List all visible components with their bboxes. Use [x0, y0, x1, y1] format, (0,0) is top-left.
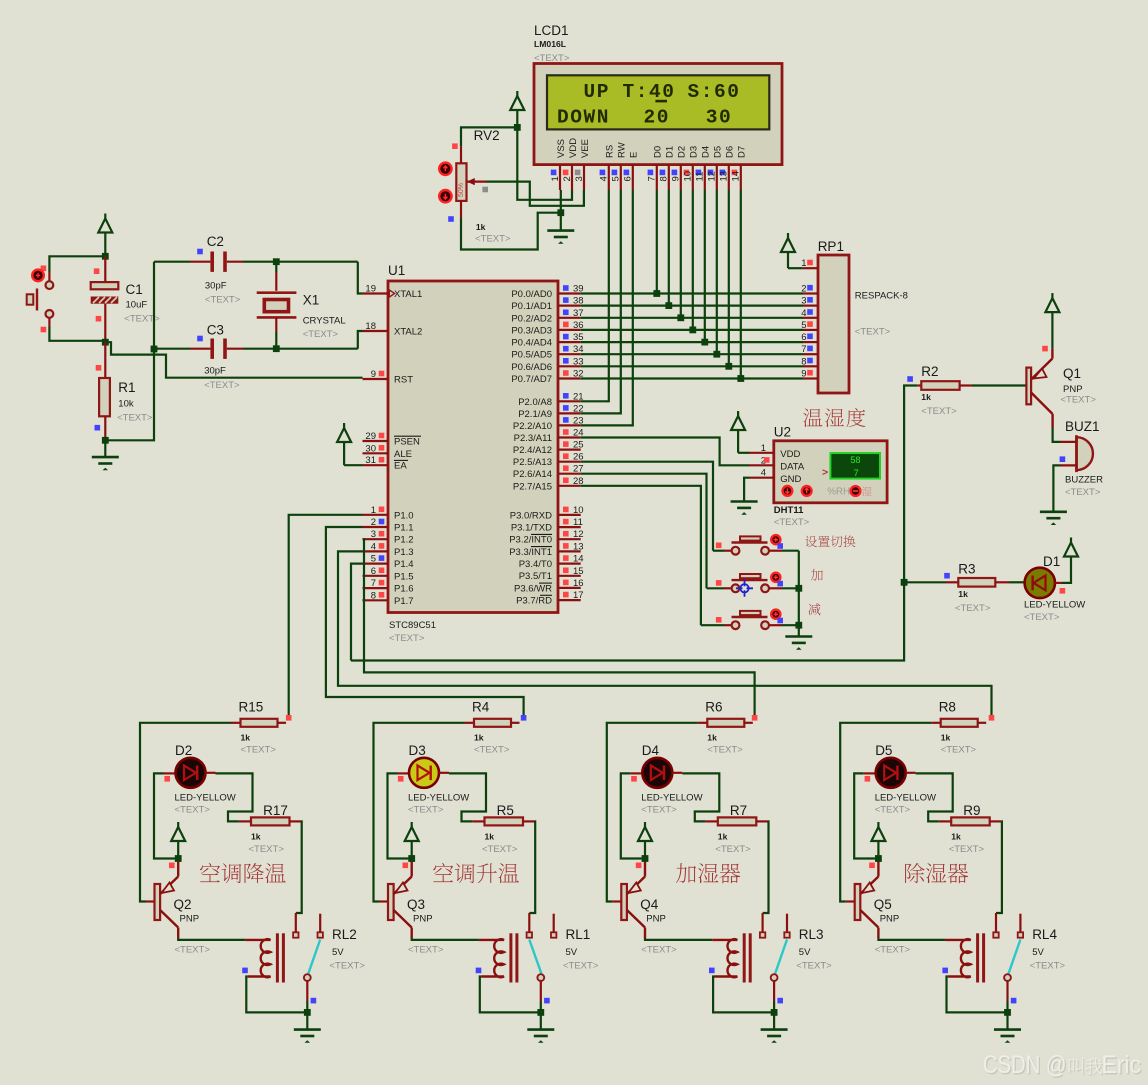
svg-text:LM016L: LM016L [534, 39, 566, 49]
svg-text:%RH: %RH [827, 486, 850, 497]
resistor R1 bottom stub [104, 416, 106, 440]
power flag VCC for EA [343, 423, 345, 428]
wire VCC down to LCD VDD [517, 127, 572, 199]
junction emitter Q3 [408, 855, 415, 862]
junction VSS node [557, 209, 564, 216]
svg-text:D1: D1 [1043, 554, 1060, 569]
relay RL4 contact pins [995, 913, 997, 932]
RP1 pin 1 stub [803, 267, 818, 269]
svg-text:1k: 1k [241, 733, 251, 743]
svg-text:CSDN @: CSDN @ [983, 1051, 1067, 1079]
wire D1 to VCC [1055, 582, 1062, 584]
wire Q4 collector to relay coil [645, 938, 712, 940]
svg-text:XTAL1: XTAL1 [394, 289, 422, 300]
LCD LCD1 LM016L body [534, 64, 782, 165]
svg-text:1k: 1k [958, 589, 968, 599]
capacitor C1 top stub [104, 256, 106, 282]
resistor R17 1k [239, 820, 251, 822]
svg-text:P2.0/A8: P2.0/A8 [518, 397, 552, 408]
svg-text:58: 58 [850, 455, 860, 465]
svg-text:LED-YELLOW: LED-YELLOW [408, 793, 469, 804]
junction relay RL1 ground [537, 1009, 544, 1016]
wire P1.3 to R8 [338, 551, 992, 715]
resistor R9 1k [939, 820, 951, 822]
relay RL3 coil [712, 939, 737, 977]
svg-text:DOWN: DOWN [557, 107, 610, 129]
junction emitter Q5 [875, 855, 882, 862]
junction relay RL3 ground [771, 1009, 778, 1016]
svg-text:T:40: T:40 [623, 81, 676, 103]
svg-text:P3.5/T1: P3.5/T1 [519, 571, 552, 582]
svg-text:15: 15 [573, 566, 584, 577]
ground for LCD VSS [547, 229, 574, 232]
svg-text:<TEXT>: <TEXT> [1061, 395, 1097, 406]
resistor R4 1k [465, 722, 475, 724]
svg-text:R4: R4 [472, 700, 490, 715]
svg-text:<TEXT>: <TEXT> [1024, 612, 1060, 623]
svg-text:P3.2/INT0: P3.2/INT0 [509, 535, 552, 546]
svg-text:P1.1: P1.1 [394, 523, 414, 534]
svg-text:<TEXT>: <TEXT> [474, 745, 510, 756]
svg-text:30: 30 [706, 107, 733, 129]
junction ground node [102, 437, 109, 444]
svg-text:3: 3 [801, 296, 806, 307]
junction D7/P0.7 [737, 375, 744, 382]
svg-text:D2: D2 [677, 146, 688, 158]
relay RL1 coil [479, 939, 504, 977]
wire P1.2/P1.7 to R6 [363, 539, 755, 715]
svg-text:PNP: PNP [413, 914, 433, 925]
svg-text:LED-YELLOW: LED-YELLOW [875, 793, 936, 804]
wire RST node to RST pin [105, 342, 362, 378]
junction RST node [102, 339, 109, 346]
svg-text:11: 11 [695, 172, 706, 182]
wire P0.2 row [581, 317, 803, 319]
wire R15 to Q2 base [140, 723, 231, 902]
svg-text:11: 11 [573, 517, 583, 528]
svg-text:STC89C51: STC89C51 [389, 620, 436, 631]
U2 actuator buttons [783, 486, 793, 496]
svg-text:2: 2 [562, 176, 573, 181]
resistor R3 1k [904, 581, 946, 583]
label jian (decrease) red [808, 603, 820, 615]
transistor Q2 PNP [155, 884, 161, 920]
svg-text:R1: R1 [118, 380, 135, 395]
resistor R5 1k [472, 820, 484, 822]
resistor R1 top stub [104, 342, 106, 378]
wire emitter node to D3 anode [388, 773, 412, 858]
svg-text:25: 25 [573, 440, 584, 451]
wire P0.7 row [581, 377, 803, 379]
junction D6/P0.6 [725, 363, 732, 370]
crystal X1 top wire [275, 262, 277, 272]
wire emitter node to D4 anode [621, 773, 645, 858]
svg-text:1k: 1k [485, 832, 495, 842]
wire D4 cathode to R7 [672, 772, 682, 774]
transistor Q5 PNP [855, 884, 861, 920]
microcontroller U1 STC89C51 body [388, 281, 558, 613]
svg-text:RESPACK-8: RESPACK-8 [855, 290, 908, 301]
relay RL2 core [276, 933, 279, 982]
svg-text:1k: 1k [707, 733, 717, 743]
svg-text:LED-YELLOW: LED-YELLOW [1024, 600, 1085, 611]
wire RS to P2.0 [581, 190, 609, 401]
junction relay RL2 ground [304, 1009, 311, 1016]
svg-text:XTAL2: XTAL2 [394, 327, 422, 338]
wire P2.7 to button 3 [581, 486, 701, 625]
svg-text:P3.0/RXD: P3.0/RXD [510, 510, 552, 521]
relay RL2 blade [308, 940, 320, 975]
watermark CSDN [983, 1051, 1143, 1081]
buzzer BUZ1 [1077, 437, 1093, 470]
power flag VCC reset [104, 214, 106, 219]
label RL3 chinese red [676, 863, 696, 883]
svg-text:P2.7/A15: P2.7/A15 [513, 481, 552, 492]
push button [707, 587, 725, 589]
svg-text:Q3: Q3 [407, 897, 425, 912]
svg-text:<TEXT>: <TEXT> [249, 844, 285, 855]
power flag VCC for D5 [877, 822, 879, 827]
wire R9 to relay contact [990, 820, 1002, 822]
junction D0/P0.0 [653, 290, 660, 297]
svg-text:9: 9 [371, 369, 376, 380]
svg-text:1k: 1k [921, 392, 931, 402]
potentiometer RV2 body [456, 163, 466, 201]
label RL4 chinese red [905, 863, 924, 883]
svg-text:VDD: VDD [780, 449, 800, 460]
RP1 pins 2-9 stubs [803, 292, 818, 294]
relay RL1 blade [529, 940, 541, 975]
capacitor C2 30pF [210, 252, 214, 272]
svg-text:DHT11: DHT11 [774, 505, 804, 516]
wire P0.4 row [581, 341, 803, 343]
svg-text:12: 12 [707, 171, 718, 182]
relay RL3 blade [775, 940, 787, 975]
svg-text:PSEN: PSEN [394, 437, 420, 448]
crystal X1 bottom wire [275, 317, 277, 332]
wire D6 vertical from LCD pin 13 [728, 190, 730, 366]
relay RL3 contact pins [761, 913, 763, 932]
svg-text:P1.5: P1.5 [394, 571, 414, 582]
relay RL2 pole to ground [306, 981, 308, 1001]
label wen-shi-du (temperature humidity) red [803, 409, 822, 427]
junction VCC node [514, 124, 521, 131]
svg-text:<TEXT>: <TEXT> [875, 805, 911, 816]
relay RL2 coil [245, 939, 270, 977]
transistor Q4 PNP [621, 884, 627, 920]
svg-text:<TEXT>: <TEXT> [408, 805, 444, 816]
wire C3 to XTAL2 [227, 348, 243, 350]
svg-text:C1: C1 [126, 282, 143, 297]
wire D4 vertical from LCD pin 11 [704, 190, 706, 342]
resistor R7 1k [705, 820, 717, 822]
svg-text:P1.2: P1.2 [394, 535, 414, 546]
svg-text:Q2: Q2 [174, 897, 192, 912]
diode D4 LED-YELLOW [642, 758, 672, 788]
svg-text:D3: D3 [689, 146, 700, 158]
svg-text:5: 5 [801, 320, 806, 331]
svg-text:12: 12 [573, 529, 584, 540]
wire D3 cathode to R5 [439, 772, 449, 774]
power flag VCC near LCD [516, 91, 518, 96]
LCD cursor [655, 100, 667, 103]
relay RL4 core [976, 933, 979, 982]
ground for RL3 [761, 1028, 788, 1031]
relay RL1 contact pins [528, 913, 530, 932]
power flag VCC for D1 [1070, 538, 1072, 543]
svg-text:<TEXT>: <TEXT> [941, 745, 977, 756]
svg-text:<TEXT>: <TEXT> [955, 603, 991, 614]
wire EA to VCC [344, 464, 362, 466]
svg-text:R8: R8 [939, 700, 956, 715]
relay RL2 contact pins [295, 913, 297, 932]
svg-text:14: 14 [573, 554, 584, 565]
svg-text:13: 13 [573, 541, 584, 552]
svg-text:D3: D3 [409, 743, 426, 758]
wire E to P2.2 [581, 190, 633, 425]
svg-text:RL4: RL4 [1032, 927, 1057, 942]
svg-text:<TEXT>: <TEXT> [303, 329, 339, 340]
svg-text:4: 4 [599, 176, 610, 181]
wire P0.1 row [581, 305, 803, 307]
junction D5/P0.5 [713, 351, 720, 358]
svg-text:R15: R15 [239, 700, 264, 715]
svg-text:P1.3: P1.3 [394, 547, 414, 558]
svg-text:<TEXT>: <TEXT> [241, 745, 277, 756]
svg-text:1: 1 [801, 258, 806, 269]
svg-text:<TEXT>: <TEXT> [475, 234, 511, 245]
svg-text:16: 16 [573, 578, 584, 589]
label shi (humidity) small red [862, 487, 872, 496]
svg-text:<TEXT>: <TEXT> [1065, 487, 1101, 498]
svg-text:4: 4 [801, 308, 806, 319]
U2 display window [830, 453, 880, 479]
svg-text:EA: EA [394, 461, 407, 472]
svg-text:U2: U2 [774, 424, 791, 439]
svg-text:6: 6 [371, 566, 376, 577]
wire P0.3 row [581, 329, 803, 331]
ground for RL2 [294, 1028, 321, 1031]
wire C2 to XTAL1 [227, 261, 243, 263]
wire Q5 collector to relay coil [878, 938, 945, 940]
svg-text:13: 13 [719, 171, 730, 182]
svg-text:1k: 1k [474, 733, 484, 743]
svg-text:P1.4: P1.4 [394, 559, 414, 570]
svg-text:P0.0/AD0: P0.0/AD0 [511, 289, 552, 300]
svg-text:<TEXT>: <TEXT> [482, 844, 518, 855]
svg-text:10: 10 [573, 505, 584, 516]
svg-text:<TEXT>: <TEXT> [175, 945, 211, 956]
svg-text:<TEXT>: <TEXT> [641, 805, 677, 816]
ground for buzzer [1040, 510, 1067, 513]
svg-text:9: 9 [671, 176, 682, 181]
svg-text:5V: 5V [799, 947, 811, 958]
svg-text:7: 7 [854, 468, 859, 478]
svg-text:5V: 5V [1032, 947, 1044, 958]
label she-zhi-qie-huan (set toggle) red [805, 536, 817, 548]
wire P1.0 to R15 [289, 515, 363, 715]
svg-text:<TEXT>: <TEXT> [715, 844, 751, 855]
svg-text:8: 8 [801, 356, 806, 367]
svg-text:PNP: PNP [880, 914, 900, 925]
svg-text:D6: D6 [725, 146, 736, 158]
label RL2 chinese red [200, 863, 220, 882]
power flag VCC for D4 [644, 822, 646, 827]
svg-text:R5: R5 [497, 803, 514, 818]
svg-text:10k: 10k [118, 399, 134, 410]
wire to reset button top [49, 256, 105, 271]
wire R2 to Q1 base [960, 384, 972, 386]
svg-text:ALE: ALE [394, 449, 412, 460]
capacitor C3 left stub [156, 348, 190, 350]
wire D0 vertical from LCD pin 7 [656, 190, 658, 294]
svg-text:30pF: 30pF [204, 366, 226, 377]
svg-text:8: 8 [371, 590, 376, 601]
junction D2/P0.2 [677, 314, 684, 321]
wire Q2 collector to relay coil [178, 938, 245, 940]
wire ground node to C2/C3 ground rail [105, 262, 154, 441]
svg-text:S:60: S:60 [688, 81, 741, 103]
svg-text:LED-YELLOW: LED-YELLOW [641, 793, 702, 804]
svg-text:5V: 5V [566, 947, 578, 958]
power flag VCC for RP1 [787, 233, 789, 238]
svg-text:1: 1 [550, 176, 561, 181]
svg-text:VDD: VDD [568, 138, 579, 158]
power flag VCC for D2 [177, 822, 179, 827]
diode D3 LED-YELLOW [409, 758, 439, 788]
svg-text:E: E [629, 152, 640, 158]
svg-text:R6: R6 [705, 700, 722, 715]
svg-text:5: 5 [371, 554, 376, 565]
svg-text:30pF: 30pF [205, 281, 227, 292]
relay RL4 blade [1008, 940, 1020, 975]
power flag VCC for Q1 [1051, 293, 1053, 298]
diode D5 LED-YELLOW [876, 758, 906, 788]
wire P2.3 row 24 to U2 DATA [581, 438, 750, 466]
junction D3/P0.3 [689, 327, 696, 334]
svg-text:D2: D2 [175, 743, 192, 758]
junction D4/P0.4 [701, 339, 708, 346]
svg-text:1: 1 [371, 505, 376, 516]
U1 right pin stubs with numbers [558, 292, 581, 294]
wire R8 to Q5 base [840, 723, 931, 902]
svg-text:<TEXT>: <TEXT> [408, 945, 444, 956]
ground for buttons [785, 635, 812, 638]
RV2 bottom pin and wire to VSS net [460, 201, 462, 218]
svg-text:1k: 1k [941, 733, 951, 743]
svg-text:<TEXT>: <TEXT> [796, 961, 832, 972]
svg-text:P0.3/AD3: P0.3/AD3 [511, 325, 552, 336]
svg-text:Eric: Eric [1102, 1051, 1142, 1079]
svg-text:X1: X1 [303, 293, 320, 308]
wire P1.4 to rail [351, 564, 363, 661]
svg-text:>: > [822, 466, 828, 478]
svg-text:P1.0: P1.0 [394, 510, 414, 521]
wire VCC to RP1 pin1 [788, 267, 803, 269]
wire D3 vertical from LCD pin 10 [692, 190, 694, 330]
svg-text:8: 8 [659, 176, 670, 181]
svg-text:7: 7 [647, 176, 658, 181]
relay RL4 pole to ground [1006, 981, 1008, 1001]
svg-text:<TEXT>: <TEXT> [921, 406, 957, 417]
svg-text:PNP: PNP [646, 914, 666, 925]
crystal X1 CRYSTAL [257, 291, 297, 294]
svg-text:R2: R2 [921, 364, 938, 379]
svg-text:20: 20 [644, 107, 671, 129]
ground for RL1 [527, 1028, 554, 1031]
junction C3 left [151, 346, 158, 353]
push button [713, 550, 724, 552]
svg-text:17: 17 [573, 590, 584, 601]
junction crystal bottom [273, 345, 280, 352]
svg-text:Q1: Q1 [1063, 366, 1081, 381]
junction relay RL4 ground [1004, 1009, 1011, 1016]
svg-text:P2.6/A14: P2.6/A14 [513, 469, 552, 480]
svg-text:30: 30 [365, 443, 376, 454]
svg-text:VSS: VSS [556, 139, 567, 158]
svg-text:7: 7 [371, 578, 376, 589]
wire P0.6 row [581, 365, 803, 367]
svg-text:Q4: Q4 [640, 897, 659, 912]
svg-text:C3: C3 [207, 323, 224, 338]
wire D7 vertical from LCD pin 14 [740, 190, 742, 379]
svg-text:1k: 1k [718, 832, 728, 842]
svg-text:6: 6 [801, 332, 806, 343]
resistor R8 1k [931, 722, 941, 724]
svg-text:UP: UP [584, 81, 611, 103]
label RL1 chinese red [433, 863, 453, 882]
svg-text:5V: 5V [332, 947, 344, 958]
wire P1.7 stub join [363, 599, 365, 601]
svg-text:R17: R17 [263, 803, 288, 818]
svg-text:1k: 1k [951, 832, 961, 842]
transistor Q3 PNP [388, 884, 394, 920]
wire P0.0 row [581, 292, 803, 294]
svg-text:1k: 1k [251, 832, 261, 842]
svg-text:P3.7/RD: P3.7/RD [516, 596, 552, 607]
wire D2 vertical from LCD pin 9 [680, 190, 682, 318]
svg-text:3: 3 [574, 176, 585, 181]
relay RL3 core [743, 933, 746, 982]
svg-text:<TEXT>: <TEXT> [389, 633, 425, 644]
svg-text:31: 31 [365, 455, 376, 466]
svg-text:P0.4/AD4: P0.4/AD4 [511, 338, 552, 349]
wire U2 GND to ground [744, 478, 749, 502]
wire D5 vertical from LCD pin 12 [716, 190, 718, 354]
power flag VCC for U2 [737, 411, 739, 416]
svg-text:<TEXT>: <TEXT> [563, 961, 599, 972]
svg-text:<TEXT>: <TEXT> [949, 844, 985, 855]
wire VCC to RV2 top [461, 127, 517, 146]
relay RL3 pole to ground [773, 981, 775, 1001]
svg-text:P2.2/A10: P2.2/A10 [513, 421, 552, 432]
svg-text:P2.1/A9: P2.1/A9 [518, 409, 552, 420]
svg-text:P0.5/AD5: P0.5/AD5 [511, 350, 552, 361]
svg-text:R9: R9 [963, 803, 980, 818]
svg-text:29: 29 [365, 431, 376, 442]
svg-text:6: 6 [623, 176, 634, 181]
svg-text:18: 18 [365, 321, 376, 332]
svg-text:P3.6/WR: P3.6/WR [514, 583, 552, 594]
label jia (increase) red [811, 569, 823, 581]
svg-text:D4: D4 [642, 743, 660, 758]
svg-text:P3.1/TXD: P3.1/TXD [511, 523, 552, 534]
svg-text:P0.1/AD1: P0.1/AD1 [511, 301, 552, 312]
wire P2.6 to button 2 [581, 474, 707, 589]
wire R3 to D1 [995, 581, 1009, 583]
svg-text:<TEXT>: <TEXT> [774, 517, 810, 528]
svg-text:<TEXT>: <TEXT> [175, 805, 211, 816]
